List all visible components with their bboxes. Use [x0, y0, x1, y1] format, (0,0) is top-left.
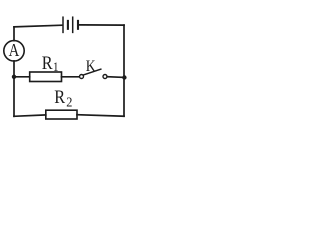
svg-text:R: R	[54, 86, 65, 107]
svg-text:K: K	[86, 58, 96, 75]
node right junction	[122, 75, 126, 79]
battery GB	[63, 17, 78, 32]
switch K contact left	[80, 75, 84, 79]
battery plate long left	[62, 17, 64, 32]
svg-text:1: 1	[53, 59, 59, 74]
resistor R1 box	[30, 72, 62, 82]
ammeter A	[4, 41, 24, 61]
wire branch left (node to R1)	[14, 76, 30, 78]
battery plate short right	[77, 21, 79, 29]
resistor R2 box	[46, 110, 77, 119]
wire R1 to switch	[62, 76, 80, 78]
node left junction	[12, 75, 16, 79]
wire left vertical lower	[13, 61, 15, 116]
switch K blade	[84, 69, 101, 75]
wire left vertical upper	[13, 27, 15, 41]
wire top-left segment	[14, 25, 62, 27]
wire top-right segment	[80, 24, 124, 26]
wire bottom-right segment	[77, 115, 124, 117]
battery plate short	[67, 21, 69, 29]
wire right vertical	[123, 25, 125, 116]
switch K contact right	[103, 75, 107, 79]
battery plate long right	[72, 17, 74, 32]
wire bottom-left segment	[14, 115, 46, 116]
svg-text:A: A	[9, 40, 20, 61]
svg-text:R: R	[42, 52, 53, 73]
svg-text:2: 2	[66, 94, 72, 110]
wire switch to right	[107, 76, 124, 79]
